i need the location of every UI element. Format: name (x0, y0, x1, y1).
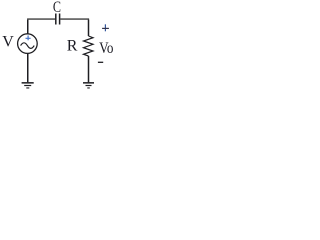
svg-text:C: C (53, 0, 61, 17)
node Vo plus polarity mark (104, 24, 106, 31)
svg-text:V: V (2, 34, 14, 51)
wire: vertical from rail right corner down to resistor top (88, 20, 90, 36)
ground (right, below resistor) (83, 83, 94, 88)
source V sine wave (21, 43, 35, 49)
source V plus polarity mark (26, 36, 31, 41)
svg-text:R: R (67, 38, 78, 55)
node Vo minus polarity mark (98, 61, 103, 63)
wire: top rail left segment (to capacitor left plate) (27, 18, 55, 20)
wire: resistor bottom to right ground (88, 56, 90, 82)
wire: source bottom to left ground (27, 53, 29, 82)
capacitor C1 left plate (55, 14, 57, 25)
resistor R (zigzag) (84, 36, 94, 56)
wire: top rail right segment (capacitor right plate to right corner) (60, 18, 89, 20)
ground (left, below source) (22, 83, 34, 88)
source V (AC voltage source circle) (18, 34, 38, 54)
svg-text:Vo: Vo (99, 40, 113, 57)
capacitor C1 right plate (59, 14, 61, 25)
wire: vertical stub from source top up to rail (27, 20, 29, 34)
